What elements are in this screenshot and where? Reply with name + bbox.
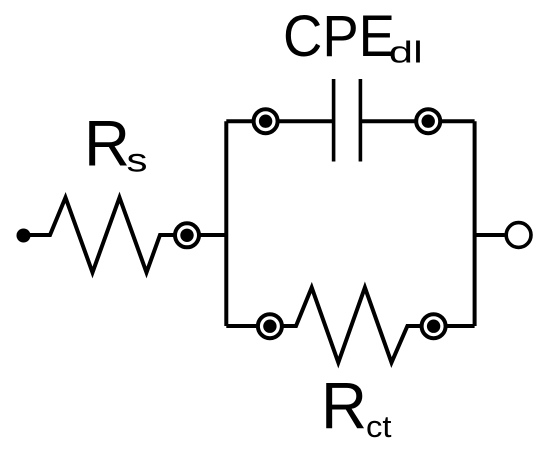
svg-text:CPE: CPE: [283, 4, 395, 69]
svg-text:R: R: [321, 369, 367, 443]
svg-text:R: R: [84, 107, 130, 180]
svg-text:s: s: [127, 142, 148, 179]
svg-text:ct: ct: [366, 409, 392, 444]
svg-text:dl: dl: [389, 35, 423, 70]
